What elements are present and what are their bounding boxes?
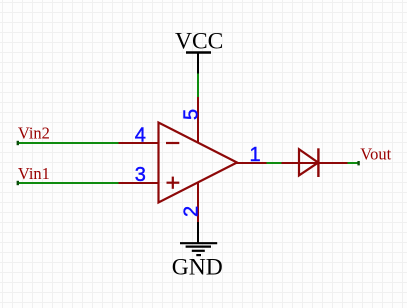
pin 5 of op-amp (197, 97, 199, 143)
wire diode to Vout (348, 162, 360, 164)
op-amp plus input mark (167, 177, 180, 189)
svg-text:4: 4 (135, 124, 146, 146)
ground symbol (180, 222, 217, 255)
wire op-amp output to diode (267, 162, 282, 164)
pin 1 of op-amp (237, 162, 267, 164)
pin 2 of op-amp (197, 183, 199, 223)
diode triangle (299, 149, 318, 175)
svg-text:Vin2: Vin2 (18, 123, 50, 142)
svg-text:Vout: Vout (360, 144, 391, 163)
svg-text:2: 2 (181, 206, 203, 217)
svg-text:1: 1 (250, 144, 261, 166)
wire Vin1 (17, 182, 119, 184)
diode anode pin (282, 162, 319, 164)
op-amp triangle (159, 123, 238, 203)
diode cathode bar (317, 148, 319, 177)
wire end tick Vin2 (17, 141, 19, 145)
svg-text:Vin1: Vin1 (18, 164, 50, 183)
wire VCC to pin 5 (197, 74, 199, 98)
wire Vin2 (17, 142, 119, 144)
wire end tick Vin1 (17, 181, 19, 185)
op-amp minus input mark (166, 142, 179, 144)
diode cathode pin (319, 162, 348, 164)
wire end tick Vout (357, 161, 359, 165)
power symbol VCC bar (186, 53, 211, 74)
pin 3 of op-amp (119, 182, 159, 184)
svg-text:3: 3 (135, 164, 146, 186)
pin 4 of op-amp (119, 142, 159, 144)
svg-text:VCC: VCC (175, 29, 223, 55)
svg-text:GND: GND (172, 255, 223, 281)
svg-text:5: 5 (181, 109, 203, 120)
